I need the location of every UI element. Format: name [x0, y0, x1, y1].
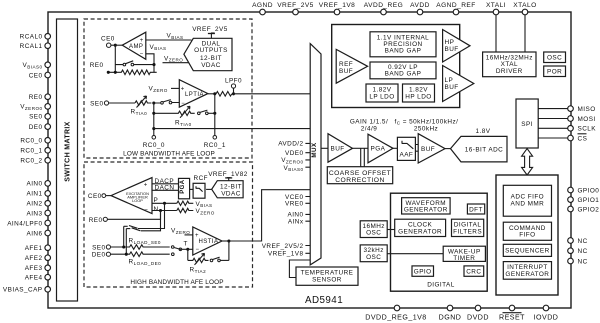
svg-text:DVDD: DVDD [467, 314, 489, 322]
vdac 12-BIT VDAC (high BW) [212, 181, 243, 198]
svg-text:CORRECTION: CORRECTION [335, 177, 384, 184]
16MHz OSC box [360, 221, 387, 238]
top pin AGND [252, 2, 273, 15]
svg-text:GENERATOR: GENERATOR [398, 229, 442, 236]
svg-text:DFT: DFT [469, 207, 483, 214]
svg-text:ADC FIFO: ADC FIFO [511, 193, 544, 200]
top pin VREF_2V5 [277, 2, 314, 15]
wire DACN [152, 185, 179, 192]
interrupt generator box [503, 262, 551, 280]
svg-text:FIFO: FIFO [519, 232, 535, 239]
right pin NC c [568, 258, 588, 265]
resistor P to VBIAS [177, 201, 213, 208]
svg-text:OSC: OSC [366, 230, 381, 237]
label 1.8V [476, 128, 491, 135]
resistor RTIA2 variable [188, 253, 209, 274]
label RE0 (low BW) [90, 62, 104, 69]
wire P node [152, 202, 177, 205]
svg-text:AFE1: AFE1 [25, 245, 43, 252]
svg-text:SCLK: SCLK [578, 126, 597, 133]
svg-text:AIN6: AIN6 [26, 230, 42, 237]
buffer HP BUF [443, 30, 470, 63]
wire PGA to AAF [393, 147, 398, 149]
label fc [395, 118, 459, 132]
svg-text:AGND: AGND [252, 2, 273, 9]
svg-text:RC0_1: RC0_1 [204, 142, 226, 149]
supply VREF_1V82 for VDAC [208, 171, 248, 181]
svg-text:AFE4: AFE4 [25, 275, 43, 282]
right pin GPIO1 [568, 197, 600, 204]
terminal RE0 (high BW) [89, 217, 108, 224]
switch matrix [57, 19, 78, 301]
wire DACP [152, 178, 179, 185]
terminal RC0_0 [143, 136, 165, 149]
svg-text:NC: NC [578, 258, 588, 265]
svg-text:AINx: AINx [288, 219, 304, 226]
svg-text:RE0: RE0 [29, 94, 43, 101]
top pin AVDD [410, 2, 430, 15]
right pin SCLK [568, 126, 597, 133]
svg-text:VBIAS_CAP: VBIAS_CAP [3, 287, 43, 294]
switch RE0 feedback [115, 61, 154, 66]
wire XTALI to XTAL driver [495, 15, 497, 52]
resistor RLOAD_DE0 [111, 252, 175, 266]
left pin AIN4/LPF0 [7, 220, 50, 227]
svg-text:VRE0: VRE0 [285, 201, 304, 208]
svg-text:−: − [196, 247, 200, 253]
svg-text:AIN0: AIN0 [26, 181, 42, 188]
waveform generator box [402, 198, 451, 214]
node feedback dot [152, 63, 155, 72]
svg-text:BAND GAP: BAND GAP [385, 48, 422, 55]
wire CE0 down to feedback row [114, 45, 116, 72]
wire 16MHz OSC to clock generator [387, 229, 395, 231]
svg-text:GENERATOR: GENERATOR [505, 271, 549, 278]
mux input ticks group3 [305, 246, 310, 254]
svg-text:HP: HP [445, 39, 455, 46]
svg-text:OSC: OSC [366, 254, 381, 261]
resistor RE0 feedback [107, 70, 157, 75]
chip outline AD5941 [48, 12, 571, 308]
svg-text:VREF_2V5: VREF_2V5 [192, 26, 228, 33]
svg-text:NC: NC [578, 248, 588, 255]
svg-text:VREF_1V8: VREF_1V8 [268, 251, 304, 258]
bottom pin DGND [439, 305, 462, 321]
left pin AIN6 [26, 230, 50, 237]
svg-text:RC0_0: RC0_0 [143, 142, 165, 149]
mux label VDE0 [285, 150, 304, 157]
right pin NC b [568, 248, 588, 255]
label P [154, 197, 159, 204]
bottom pin DVDD_REG_1V8 [365, 305, 426, 321]
svg-text:OUTPUTS: OUTPUTS [194, 47, 228, 54]
mux label VRE0 [285, 201, 304, 208]
terminal CE0 (low BW) [101, 36, 115, 48]
svg-text:RESET: RESET [499, 314, 525, 322]
terminal SE0 (low BW) [90, 101, 109, 108]
buffer LP BUF [443, 66, 474, 102]
svg-text:RC0_2: RC0_2 [20, 158, 42, 165]
sequencer box [503, 244, 551, 256]
wire 32kHz OSC to wake-up timer [387, 253, 443, 255]
left pin AIN1 [26, 191, 50, 198]
svg-text:AVDD: AVDD [410, 2, 430, 9]
right pin GPIO0 [568, 187, 600, 194]
left pin SE0 [29, 114, 50, 121]
svg-text:SPI: SPI [521, 121, 533, 128]
svg-text:GPIO2: GPIO2 [578, 206, 600, 213]
svg-text:SE0: SE0 [90, 101, 103, 108]
wire RCF to VDAC [206, 188, 212, 190]
wire LPTIA output [208, 92, 216, 95]
wire SPI to MISO [538, 108, 568, 110]
wire HSTIA output node [222, 239, 230, 260]
svg-text:TEMPERATURE: TEMPERATURE [301, 270, 354, 277]
svg-text:AIN1: AIN1 [26, 191, 42, 198]
svg-text:AVDD/2: AVDD/2 [278, 141, 303, 148]
bidirectional arrow SPI to ADC FIFO [522, 149, 533, 175]
op-amp HSTIA [193, 227, 222, 255]
svg-text:GAIN 1/1.5/: GAIN 1/1.5/ [350, 118, 388, 125]
resistor RTIA0 variable (input) [131, 96, 152, 116]
svg-text:CE0: CE0 [29, 72, 43, 79]
svg-text:LOW BANDWIDTH AFE LOOP: LOW BANDWIDTH AFE LOOP [123, 151, 215, 158]
bottom pin IOVDD [534, 305, 559, 321]
svg-text:250kHz: 250kHz [414, 125, 438, 132]
left pin RE0 [29, 94, 51, 101]
svg-text:LOOP: LOOP [132, 198, 143, 203]
mux label AIN0 [287, 212, 303, 219]
svg-text:−: − [144, 208, 148, 214]
wire P node to SE0 bypass [138, 203, 165, 228]
svg-text:SE0: SE0 [92, 244, 105, 251]
left pin AIN2 [26, 201, 50, 208]
wire VZERO to LPTIA+ [149, 85, 180, 92]
svg-text:HP LDO: HP LDO [405, 93, 431, 100]
node LPF0 [225, 77, 242, 95]
wire SE0 to RTIA0 [109, 102, 135, 104]
32kHz OSC box [360, 245, 387, 262]
SPI box [516, 99, 538, 148]
wire BUF1 to PGA [353, 147, 369, 149]
wire AMP+ VBIAS to VDAC [146, 33, 192, 41]
wire T node to HSTIA- [188, 249, 193, 260]
svg-text:GPIO0: GPIO0 [578, 187, 600, 194]
svg-text:HSTIA: HSTIA [199, 239, 219, 245]
mux label VREF_1V8 [268, 251, 304, 258]
top pin AVDD_REG [364, 2, 403, 15]
left pin RC0_1 [20, 148, 50, 155]
svg-text:REF: REF [339, 61, 353, 68]
svg-text:BUF: BUF [421, 146, 435, 153]
mux label VZERO0 [281, 157, 303, 164]
16-bit ADC block [451, 136, 508, 162]
buffer BUF1 [328, 134, 353, 163]
coarse offset correction box [327, 167, 392, 184]
OSC box [544, 52, 566, 63]
wire SPI to SCLK [538, 127, 568, 129]
svg-text:AIN2: AIN2 [26, 201, 42, 208]
left pin VBIAS_CAP [3, 287, 51, 294]
mux input ticks group2 [305, 197, 310, 222]
wire LPF0 to mux [234, 93, 311, 95]
left pin DE0 [29, 124, 51, 131]
left pin RCAL1 [20, 43, 51, 50]
left pin AFE1 [25, 245, 51, 252]
wire SPI to CS [538, 137, 568, 139]
op-amp LPTIA [179, 80, 208, 108]
svg-text:VREF_2V5/2: VREF_2V5/2 [262, 243, 304, 250]
svg-text:COARSE OFFSET: COARSE OFFSET [329, 170, 391, 177]
dashed box low bandwidth AFE loop [84, 19, 252, 158]
svg-text:VDAC: VDAC [201, 62, 221, 69]
label AD5941 [305, 295, 343, 306]
svg-text:1.82V: 1.82V [409, 86, 428, 93]
left pin CE0 [29, 72, 51, 79]
POR box [544, 66, 566, 77]
mux input ticks group1 [305, 143, 310, 167]
svg-text:GENERATOR: GENERATOR [404, 207, 448, 214]
left pin RC0_2 [20, 158, 50, 165]
terminal RC0_1 [204, 136, 226, 149]
svg-text:DE0: DE0 [29, 124, 43, 131]
ADC FIFO and MMR box [503, 185, 551, 216]
wire VZERO to HSTIA+ [171, 228, 193, 235]
svg-text:BAND GAP: BAND GAP [385, 71, 422, 78]
svg-text:AND MMR: AND MMR [511, 200, 545, 207]
wire temp sensor to mux [289, 260, 310, 278]
dashed box high bandwidth AFE loop [84, 162, 253, 287]
svg-text:AD5941: AD5941 [305, 295, 343, 306]
svg-text:LPTIA: LPTIA [185, 92, 204, 98]
bottom pin DVDD [467, 305, 489, 321]
svg-text:VDE0: VDE0 [285, 150, 304, 157]
svg-text:AAF: AAF [400, 152, 414, 159]
svg-text:RCAL1: RCAL1 [20, 43, 43, 50]
svg-text:FILTERS: FILTERS [453, 229, 482, 236]
power reference block box [332, 25, 460, 108]
mux label AVDD/2 [278, 141, 303, 148]
right pin MISO [568, 106, 596, 113]
command FIFO box [503, 222, 551, 240]
wire RC0_0 to mux [154, 128, 310, 130]
mux label VBIAS0 [284, 165, 304, 172]
wire SPI to MOSI [538, 118, 568, 120]
wire BUF2 to ADC [445, 148, 451, 150]
svg-text:SENSOR: SENSOR [312, 277, 342, 284]
svg-text:RCF: RCF [194, 175, 208, 182]
amplifier PGA [368, 134, 393, 163]
left pin AFE3 [25, 265, 51, 272]
svg-text:CS: CS [578, 135, 588, 142]
left pin VZERO0 [20, 104, 50, 112]
switch SE0 bypass [124, 226, 138, 229]
switch HSTIA feedback [210, 257, 229, 262]
wire AMP- to feedback [146, 54, 154, 65]
svg-text:GPIO: GPIO [414, 269, 432, 276]
svg-text:NC: NC [578, 238, 588, 245]
svg-text:POR: POR [547, 69, 562, 76]
op-amp excitation amplifier loop (points left) [111, 178, 152, 214]
svg-text:AFE3: AFE3 [25, 265, 43, 272]
svg-text:AIN3: AIN3 [26, 210, 42, 217]
wire VZERO from VDAC [163, 55, 190, 62]
terminal SE0 (high BW) [92, 244, 110, 251]
svg-text:BUF: BUF [331, 146, 345, 153]
svg-text:+: + [195, 233, 199, 239]
mux trapezoid [310, 44, 321, 265]
wire taps to coarse offset [361, 148, 365, 166]
resistor RLOAD_SE0 [111, 238, 170, 250]
buffer BUF2 [418, 134, 445, 163]
clock generator box [395, 219, 446, 236]
svg-text:−: − [140, 52, 144, 58]
svg-text:TIMER: TIMER [453, 255, 475, 262]
right pin CS (active low) [568, 134, 588, 143]
node SE0 feedback junction [152, 101, 155, 104]
top pin XTALI [486, 2, 506, 15]
svg-text:XTALI: XTALI [486, 2, 506, 9]
left pin RC0_0 [20, 138, 50, 145]
svg-text:AFE2: AFE2 [25, 255, 43, 262]
svg-text:MISO: MISO [578, 106, 596, 113]
svg-text:DRIVER: DRIVER [496, 68, 523, 75]
supply VREF_2V5 for VDAC [192, 26, 228, 38]
filter AAF [397, 137, 415, 160]
svg-text:PGA: PGA [180, 179, 186, 194]
resistor RTIA0 variable (feedback) [154, 106, 195, 127]
filter RCF [193, 175, 208, 198]
left pin RCAL0 [20, 34, 51, 41]
svg-text:IOVDD: IOVDD [534, 314, 559, 322]
wire N node to DE0 bypass [141, 211, 161, 231]
right pin NC a [568, 238, 588, 245]
svg-text:BUF: BUF [445, 84, 459, 91]
svg-text:CE0: CE0 [88, 193, 102, 200]
wire DE0 bypass vertical [125, 229, 127, 255]
svg-text:T: T [184, 241, 188, 248]
svg-text:AVDD_REG: AVDD_REG [364, 2, 403, 9]
svg-text:DVDD_REG_1V8: DVDD_REG_1V8 [365, 314, 426, 322]
left pin AIN3 [26, 210, 50, 217]
svg-text:DIGITAL: DIGITAL [427, 282, 455, 289]
mux label VCE0 [285, 194, 304, 201]
svg-text:RC0_0: RC0_0 [20, 138, 42, 145]
svg-text:GPIO1: GPIO1 [578, 197, 600, 204]
right pin MOSI [568, 116, 596, 123]
svg-text:VREF_1V82: VREF_1V82 [208, 171, 248, 178]
svg-text:LP LDO: LP LDO [369, 93, 394, 100]
1.82V LP LDO [366, 84, 398, 102]
svg-text:AIN4/LPF0: AIN4/LPF0 [7, 220, 42, 227]
svg-text:2/4/9: 2/4/9 [361, 125, 377, 132]
svg-text:LP: LP [445, 77, 454, 84]
svg-text:SWITCH MATRIX: SWITCH MATRIX [65, 121, 72, 181]
terminal CE0 (high BW) [88, 193, 111, 200]
svg-text:BUF: BUF [445, 46, 459, 53]
CRC box [464, 266, 484, 276]
switch DE0 bypass [126, 228, 140, 231]
1.82V HP LDO [403, 84, 435, 102]
svg-text:XTALO: XTALO [513, 2, 536, 9]
resistor N to VZERO [177, 208, 215, 215]
svg-text:CE0: CE0 [101, 36, 115, 43]
wire N node [152, 209, 177, 212]
left pin AFE4 [25, 274, 51, 281]
mux label VREF_2V5/2 [262, 243, 304, 250]
wire HSTIA output to mux [229, 190, 310, 241]
svg-text:MOSI: MOSI [578, 116, 596, 123]
svg-text:AGND_REF: AGND_REF [436, 2, 476, 9]
vdac DUAL OUTPUTS 12-BIT VDAC [184, 38, 232, 70]
resistor LPF output [216, 92, 232, 97]
svg-text:+: + [144, 183, 148, 189]
amplifier PGA (high BW, vertical) [179, 178, 190, 198]
svg-text:1.8V: 1.8V [476, 128, 491, 135]
vertical feedback line at SE0 node [152, 103, 155, 137]
label N [154, 206, 159, 213]
wire SE0 bypass vertical [123, 226, 125, 247]
svg-text:DE0: DE0 [92, 252, 106, 259]
svg-text:SE0: SE0 [29, 114, 42, 121]
switch T [171, 241, 189, 251]
svg-text:VREF_1V8: VREF_1V8 [319, 2, 356, 9]
GPIO box [412, 266, 434, 276]
digital block box [391, 193, 488, 291]
XTAL driver box [483, 52, 536, 77]
svg-text:+: + [181, 87, 185, 93]
node RTIA0 to RC0_1 [213, 94, 216, 135]
svg-text:16-BIT ADC: 16-BIT ADC [465, 147, 503, 154]
svg-text:INTERRUPT: INTERRUPT [507, 264, 548, 271]
wire PGA to RCF [190, 188, 194, 190]
svg-text:RE0: RE0 [89, 217, 103, 224]
svg-text:1.82V: 1.82V [373, 86, 392, 93]
top pin VREF_1V8 [319, 2, 356, 15]
memory block outer box [496, 175, 558, 295]
svg-text:VDAC: VDAC [221, 191, 241, 198]
svg-text:BUF: BUF [339, 68, 353, 75]
svg-text:12-BIT: 12-BIT [200, 55, 222, 62]
wire XTALO to XTAL driver [524, 15, 526, 52]
wire RE0 to N node [108, 211, 161, 220]
svg-text:DACN: DACN [155, 185, 175, 192]
svg-text:LPF0: LPF0 [225, 77, 242, 84]
left pin AIN0 [26, 181, 50, 188]
svg-text:AMP: AMP [129, 44, 143, 50]
svg-text:RC0_1: RC0_1 [20, 148, 42, 155]
buffer REF BUF [336, 49, 367, 83]
top pin AGND_REF [436, 2, 476, 15]
bottom pin RESET (active low) [499, 305, 525, 321]
terminal DE0 (high BW) [92, 252, 111, 259]
svg-text:HIGH BANDWIDTH AFE LOOP: HIGH BANDWIDTH AFE LOOP [130, 279, 223, 286]
svg-text:SEQUENCER: SEQUENCER [505, 248, 550, 255]
svg-text:−: − [181, 101, 185, 107]
0.92V LP band gap [370, 62, 436, 79]
left pin AFE2 [25, 255, 51, 262]
svg-text:DGND: DGND [439, 314, 462, 322]
digital filters box [452, 219, 484, 236]
mux label AINx [288, 219, 304, 226]
top pin XTALO [513, 2, 536, 15]
wire AAF to BUF2 [415, 145, 418, 152]
op-amp AMP (points left) [122, 32, 146, 59]
svg-text:VREF_2V5: VREF_2V5 [277, 2, 314, 9]
switch LPTIA minus input [154, 100, 180, 105]
label GAIN [350, 118, 388, 132]
DFT box [467, 204, 484, 214]
